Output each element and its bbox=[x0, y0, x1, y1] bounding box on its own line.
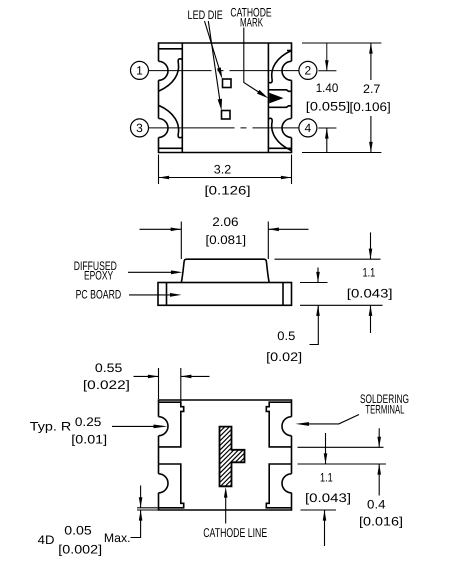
dimension 4D 0.05 [0.002] Max. bbox=[38, 486, 159, 557]
board terminal edge left bbox=[166, 283, 168, 306]
dimension 0.4 [0.016] bbox=[359, 428, 403, 528]
leader cathode line bbox=[225, 494, 227, 524]
svg-text:4D: 4D bbox=[38, 533, 55, 547]
svg-text:[0.055]: [0.055] bbox=[306, 100, 350, 114]
LED die square 2 bbox=[222, 111, 231, 120]
pin 2 circle bbox=[299, 61, 317, 79]
svg-text:1.1: 1.1 bbox=[363, 266, 376, 280]
epoxy dome bbox=[181, 259, 269, 282]
metallization stub right top bbox=[287, 50, 292, 52]
dimension 1.1 [0.043] side bbox=[275, 232, 393, 333]
metallization line left top bbox=[159, 48, 183, 50]
svg-text:0.25: 0.25 bbox=[75, 415, 102, 429]
svg-text:[0.02]: [0.02] bbox=[266, 350, 302, 364]
svg-text:[0.022]: [0.022] bbox=[83, 378, 130, 392]
extension line epoxy top bbox=[275, 258, 381, 260]
notch bottom pin lower-right bbox=[282, 474, 292, 493]
pin 1 circle bbox=[131, 61, 149, 79]
notch pin 1 bbox=[159, 61, 169, 80]
svg-text:0.55: 0.55 bbox=[95, 361, 123, 375]
svg-text:[0.081]: [0.081] bbox=[206, 233, 247, 247]
metallization line left bottom bbox=[159, 147, 183, 149]
cathode band top line bbox=[268, 90, 291, 92]
plating arc pin 1 bbox=[159, 59, 182, 91]
label DIFFUSED EPOXY bbox=[74, 259, 183, 302]
svg-text:[0.126]: [0.126] bbox=[205, 183, 251, 197]
pad upper-left bbox=[159, 402, 184, 447]
label CATHODE LINE bbox=[203, 487, 267, 540]
terminal boundary left bbox=[181, 43, 183, 153]
svg-text:Max.: Max. bbox=[104, 531, 131, 545]
pad lower-right bbox=[266, 464, 291, 508]
centerline pins 3-4 bbox=[149, 127, 299, 129]
dimension 2.7 [0.106] bbox=[302, 43, 391, 153]
cathode mark triangle bbox=[269, 93, 283, 104]
dimension 2.06 [0.081] bbox=[140, 215, 309, 259]
svg-text:3.2: 3.2 bbox=[214, 163, 232, 177]
notch pin 4 bbox=[282, 119, 292, 138]
board terminal edge right bbox=[282, 283, 284, 306]
dimension 0.55 [0.022] bbox=[83, 361, 210, 402]
extension line top bbox=[302, 42, 381, 44]
svg-text:1.1: 1.1 bbox=[320, 471, 333, 485]
svg-text:[0.106]: [0.106] bbox=[350, 100, 391, 114]
extension line pad gap bottom bbox=[298, 463, 387, 465]
notch pin 3 bbox=[159, 119, 169, 138]
pad upper-right bbox=[266, 402, 291, 447]
svg-text:1.40: 1.40 bbox=[316, 81, 339, 95]
svg-text:0.4: 0.4 bbox=[367, 497, 386, 511]
plating arc pin 2 bbox=[269, 51, 292, 83]
plating arc pin 3 bbox=[159, 106, 182, 138]
svg-text:PC BOARD: PC BOARD bbox=[76, 288, 122, 302]
metallization line right bottom bbox=[268, 147, 291, 149]
notch pin 2 bbox=[282, 61, 292, 80]
extension line package bottom left bbox=[137, 509, 159, 511]
svg-text:TERMINAL: TERMINAL bbox=[365, 403, 404, 417]
leader LED die 1 bbox=[205, 5, 272, 110]
dimension 0.5 [0.02] bbox=[266, 268, 327, 364]
svg-text:[0.043]: [0.043] bbox=[347, 286, 393, 300]
extension line board top bbox=[300, 282, 328, 284]
svg-text:LED DIE: LED DIE bbox=[188, 8, 223, 22]
label SOLDERING TERMINAL bbox=[296, 392, 410, 426]
BOTTOM VIEW bbox=[159, 400, 292, 510]
plating arc pin 4 bbox=[269, 118, 292, 150]
extension line bottom bbox=[302, 152, 381, 154]
svg-text:Typ. R: Typ. R bbox=[30, 419, 72, 433]
leader LED die 2 bbox=[208, 21, 220, 101]
leader cathode mark bbox=[244, 28, 260, 93]
svg-text:EPOXY: EPOXY bbox=[84, 268, 113, 282]
package outline top view bbox=[159, 43, 292, 153]
terminal boundary right bbox=[267, 43, 269, 153]
SIDE VIEW bbox=[158, 259, 292, 305]
svg-text:4: 4 bbox=[305, 121, 312, 135]
pin 3 circle bbox=[131, 119, 149, 137]
cathode band bottom line bbox=[268, 106, 291, 108]
svg-text:0.05: 0.05 bbox=[64, 523, 92, 537]
pad lower-left bbox=[159, 464, 184, 508]
notch bottom pin lower-left bbox=[159, 474, 169, 493]
label Typ. R 0.25 [0.01] bbox=[30, 415, 168, 446]
extension line board bottom bbox=[300, 304, 383, 306]
svg-text:[0.01]: [0.01] bbox=[71, 432, 107, 446]
package outline bottom view bbox=[159, 400, 292, 510]
svg-text:2: 2 bbox=[305, 64, 312, 78]
centerline pins 1-2 bbox=[149, 70, 299, 72]
svg-text:[0.043]: [0.043] bbox=[305, 491, 351, 505]
extension line package bottom right bbox=[301, 509, 337, 511]
pc board body bbox=[158, 283, 292, 306]
extension line pad gap top bbox=[298, 446, 384, 448]
notch bottom pin upper-right bbox=[282, 417, 292, 436]
svg-text:CATHODE LINE: CATHODE LINE bbox=[203, 525, 267, 540]
svg-text:2.7: 2.7 bbox=[363, 82, 381, 96]
svg-text:1: 1 bbox=[136, 64, 143, 78]
dimension 1.40 [0.055] bbox=[306, 43, 350, 153]
dimension 1.1 [0.043] bottom bbox=[298, 433, 387, 546]
LED die square 1 bbox=[223, 79, 232, 88]
pin 4 circle bbox=[299, 119, 317, 137]
extension line pad bottom left bbox=[137, 507, 159, 509]
svg-text:0.5: 0.5 bbox=[277, 329, 295, 343]
dimension 3.2 [0.126] bbox=[159, 155, 292, 198]
notch bottom pin upper-left bbox=[159, 417, 169, 436]
svg-text:3: 3 bbox=[136, 121, 143, 135]
svg-text:2.06: 2.06 bbox=[212, 215, 238, 229]
svg-text:[0.002]: [0.002] bbox=[58, 542, 102, 556]
svg-text:[0.016]: [0.016] bbox=[359, 514, 403, 528]
